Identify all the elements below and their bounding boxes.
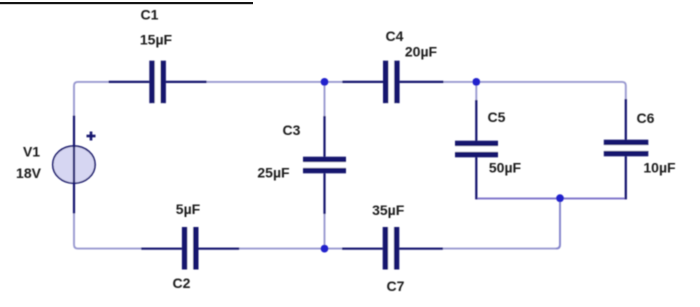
svg-text:10µF: 10µF bbox=[643, 159, 676, 175]
svg-text:C5: C5 bbox=[488, 109, 506, 125]
svg-text:15µF: 15µF bbox=[140, 32, 173, 48]
svg-text:C3: C3 bbox=[283, 122, 301, 138]
svg-text:35µF: 35µF bbox=[372, 202, 405, 218]
svg-text:25µF: 25µF bbox=[257, 164, 290, 180]
svg-text:V1: V1 bbox=[23, 144, 40, 160]
svg-text:50µF: 50µF bbox=[489, 159, 522, 175]
svg-text:5µF: 5µF bbox=[176, 201, 201, 217]
svg-text:20µF: 20µF bbox=[405, 43, 438, 59]
svg-text:C6: C6 bbox=[637, 110, 655, 126]
svg-text:C2: C2 bbox=[173, 275, 191, 291]
svg-text:C4: C4 bbox=[386, 28, 404, 44]
svg-text:C1: C1 bbox=[141, 6, 159, 22]
svg-text:C7: C7 bbox=[387, 278, 405, 294]
svg-text:18V: 18V bbox=[16, 165, 42, 181]
